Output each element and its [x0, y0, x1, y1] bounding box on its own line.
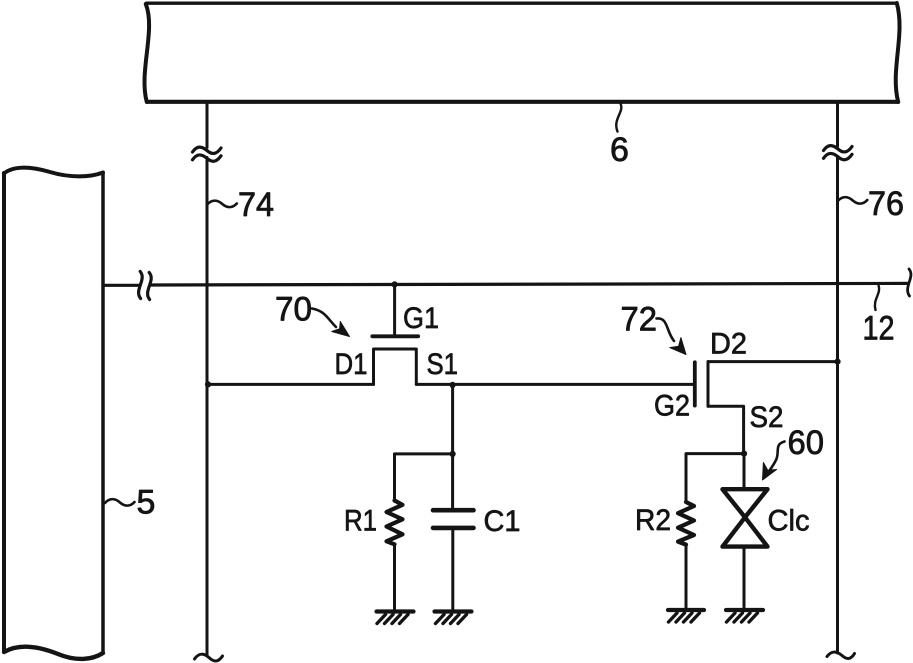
svg-text:S2: S2	[750, 401, 784, 434]
ground under Clc	[726, 610, 763, 622]
wire 76 (vertical from data line 6)	[836, 104, 839, 653]
break symbol at bottom of wire 76	[827, 652, 855, 658]
node: junction of wire 74 and D1	[205, 381, 211, 387]
wire gate of transistor 70	[393, 284, 396, 334]
capacitor C1	[433, 510, 474, 528]
resistor R2	[678, 502, 694, 545]
svg-text:R1: R1	[344, 505, 377, 538]
transistor 72 channel	[707, 362, 710, 407]
wire S2 (transistor 72 source down)	[708, 406, 744, 453]
svg-text:76: 76	[868, 185, 904, 223]
svg-text:G2: G2	[654, 390, 690, 423]
svg-text:5: 5	[137, 484, 156, 522]
node: S2 branch junction	[741, 451, 747, 457]
transistor 70 gate bar	[372, 334, 418, 338]
label 74 leader tilde	[207, 201, 237, 207]
svg-text:S1: S1	[427, 348, 459, 381]
label 70 arrow	[312, 309, 336, 328]
ground under C1	[435, 612, 472, 624]
transistor 72 gate bar	[693, 362, 697, 405]
svg-text:74: 74	[238, 186, 274, 224]
capacitor Clc (liquid crystal cell 60)	[723, 489, 768, 546]
resistor R1	[387, 501, 403, 545]
break symbol on wire 76	[824, 146, 853, 160]
svg-text:Clc: Clc	[768, 505, 810, 538]
wire Clc to ground	[743, 549, 746, 608]
wire R2 to ground	[685, 545, 688, 608]
wire S1 to gate of transistor 72	[416, 383, 693, 386]
svg-text:70: 70	[275, 291, 312, 329]
scan line 5 (left bus bar)	[4, 168, 103, 659]
break symbol on wire 74	[193, 147, 222, 161]
label 5 leader tilde	[105, 499, 135, 505]
svg-text:G1: G1	[403, 302, 439, 335]
svg-text:R2: R2	[635, 504, 671, 537]
break symbol on wire 12 near scan line	[139, 272, 152, 300]
wire D2 (transistor 72 drain to wire 76)	[708, 360, 838, 363]
data line 6 (top bus bar)	[144, 3, 899, 102]
wire from S1 node down to capacitor C1	[451, 385, 454, 508]
svg-text:12: 12	[863, 310, 895, 348]
svg-text:60: 60	[788, 424, 825, 462]
svg-text:D1: D1	[335, 348, 368, 381]
svg-text:D2: D2	[710, 328, 747, 361]
label 72 arrow	[657, 318, 675, 341]
ground under R1	[377, 612, 414, 624]
node: gate tap junction on wire 12	[392, 281, 398, 287]
label 76 leader tilde	[838, 197, 868, 203]
node: S1 junction	[450, 382, 456, 388]
label 60 arrow	[770, 442, 785, 471]
svg-text:72: 72	[621, 301, 658, 339]
wire R1 to ground	[393, 544, 396, 609]
transistor 70 channel	[374, 349, 417, 384]
wire branch to R1	[395, 454, 453, 501]
break symbol at bottom of wire 74	[195, 654, 223, 661]
wire 12 (horizontal row line)	[103, 283, 907, 285]
label 6 leader squiggle	[616, 104, 621, 132]
label 12 leader squiggle	[875, 285, 879, 310]
wire 74 (vertical from data line 6)	[206, 104, 209, 656]
svg-text:C1: C1	[484, 505, 521, 538]
node: D2 junction on wire 76	[834, 359, 840, 365]
wire S2 node down to capacitor Clc	[743, 454, 746, 488]
ground under R2	[668, 610, 704, 622]
wire C1 to ground	[451, 530, 454, 610]
break symbol at right end of wire 12	[908, 269, 911, 296]
wire D1 (from wire 74 to transistor 70)	[207, 383, 374, 386]
wire branch to R2	[686, 454, 744, 502]
node: R1 branch junction	[450, 451, 456, 457]
svg-text:6: 6	[610, 131, 629, 169]
